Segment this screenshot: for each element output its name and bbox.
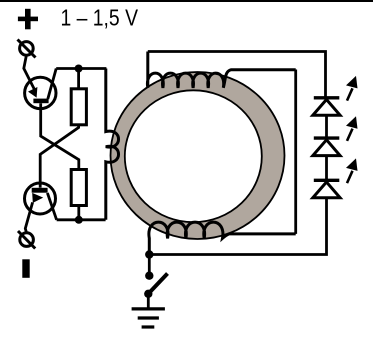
LED D1 xyxy=(313,76,358,115)
ground symbol xyxy=(132,309,165,327)
switch S1 lever xyxy=(148,274,167,294)
Q2 emitter arrow xyxy=(32,193,43,203)
node: bottom junction xyxy=(145,250,153,258)
Q1 emitter arrow xyxy=(28,87,37,98)
wire: Q1 base to R2 (cross link) xyxy=(41,103,79,169)
Q2 collector xyxy=(47,193,56,220)
Q1 base bar xyxy=(33,99,48,104)
primary winding L1 (left, on toroid) xyxy=(106,69,119,220)
wire: inner loop right side (L2 to L3) xyxy=(294,70,297,234)
wire: D3 to bottom return xyxy=(149,198,326,255)
node: top rail to R1 xyxy=(75,65,83,73)
switch S1 fixed contact xyxy=(145,272,153,280)
top border line xyxy=(0,0,373,2)
wire: junction to switch contact xyxy=(148,255,151,276)
wire: node down to R1 xyxy=(77,69,80,89)
node: bottom rail R2 xyxy=(75,216,83,224)
switch S1 pivot contact xyxy=(144,290,152,298)
D3 light arrow xyxy=(347,171,353,183)
svg-text:1 – 1,5 V: 1 – 1,5 V xyxy=(61,5,139,31)
D1 light arrow xyxy=(347,88,353,100)
transistor Q1 (upper) xyxy=(25,69,57,109)
toroid core xyxy=(111,72,285,239)
wire: terminal to transistor Q1 emitter xyxy=(24,55,34,89)
LED D2 xyxy=(313,116,358,155)
Q2 base bar xyxy=(32,188,48,193)
wire: bottom rail of flip-flop xyxy=(57,218,106,221)
ground stem xyxy=(147,294,150,309)
winding L3 (bottom, on toroid) xyxy=(149,222,296,254)
wire: R2 to bottom rail xyxy=(77,206,80,220)
wire: top rail of flip-flop xyxy=(56,67,106,70)
secondary winding L2 (top, on toroid) xyxy=(147,52,295,88)
wire: top rail to LED chain xyxy=(148,52,326,98)
D2 light arrow xyxy=(347,129,353,141)
battery minus terminal symbol xyxy=(22,259,29,278)
terminal (connector) top xyxy=(18,40,36,58)
wire: R1 to Q2 base (cross link) xyxy=(40,125,78,188)
Q2 emitter wire to terminal xyxy=(25,202,32,232)
wire: D2 to D3 xyxy=(325,156,328,181)
wire: D1 to D2 xyxy=(325,115,328,138)
battery plus terminal symbol xyxy=(18,9,38,30)
resistor R2 xyxy=(71,170,86,206)
resistor R1 xyxy=(71,89,86,125)
LED D3 xyxy=(313,158,358,197)
terminal (connector) bottom xyxy=(18,231,35,249)
transistor Q2 (lower) xyxy=(25,183,57,233)
Q1 collector xyxy=(48,69,56,100)
